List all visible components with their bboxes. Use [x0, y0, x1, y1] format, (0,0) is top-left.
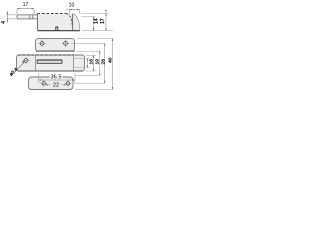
dim line 14: [93, 17, 95, 31]
plan view (middle): [36, 39, 75, 52]
svg-text:36.5: 36.5: [51, 75, 62, 81]
svg-text:17: 17: [100, 18, 106, 24]
dimension 22: [46, 82, 67, 88]
hole 1: [42, 82, 46, 86]
dimension 10 (top): [66, 3, 79, 14]
svg-text:4: 4: [1, 21, 7, 24]
svg-text:14: 14: [94, 18, 100, 24]
pin collar lines: [30, 15, 33, 19]
pin outline: [17, 15, 38, 19]
right side dims of side view: 14 and 17: [81, 10, 113, 31]
pin fill: [17, 15, 38, 19]
svg-text:10: 10: [69, 3, 75, 9]
svg-text:26: 26: [100, 59, 106, 65]
dim line 17: [105, 10, 108, 30]
overall dim line: [111, 39, 113, 90]
claw vertical line: [72, 14, 74, 31]
svg-text:22: 22: [53, 82, 59, 88]
dimension 17 (top left): [17, 2, 34, 14]
dashed arc (claw open position): [67, 14, 73, 26]
hole 2: [66, 82, 70, 86]
svg-text:19: 19: [94, 59, 100, 65]
body fill with claw arc: [38, 14, 80, 31]
dim 16: [87, 59, 89, 68]
inner vertical left: [35, 55, 37, 71]
extension lines from front view: [86, 54, 97, 56]
extension lines from strike plate: [75, 75, 101, 77]
bottom notch lug: [56, 27, 58, 31]
svg-text:17: 17: [23, 2, 29, 8]
side view body (top view drawing): [17, 14, 80, 31]
dim 19: [93, 55, 95, 71]
body bottom edge: [38, 30, 81, 32]
dimension 36.5: [39, 73, 75, 84]
body left edge: [37, 14, 39, 31]
dimension 4 (left): [1, 11, 16, 24]
dashed top edge: [18, 54, 74, 56]
hole 1: [40, 42, 44, 46]
leader line: [16, 62, 25, 71]
slot: [37, 60, 62, 63]
hole 2: [64, 42, 68, 46]
dim 40: [104, 43, 106, 83]
dim 26: [99, 51, 101, 75]
inner vertical right: [73, 55, 75, 71]
strike plate view (bottom band): [29, 77, 74, 90]
claw ledge lines: [74, 59, 85, 68]
bottom right dimension stack: [71, 39, 113, 90]
claw solid arc: [74, 14, 80, 31]
hole with crosshair: [24, 59, 28, 63]
extension lines from plan view: [77, 38, 113, 40]
front view (bottom): [8, 55, 84, 77]
body top dashed edge: [38, 13, 67, 15]
